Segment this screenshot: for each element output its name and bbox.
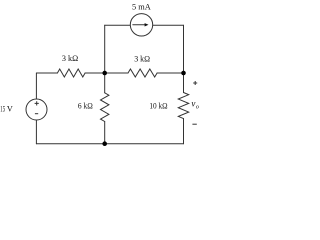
svg-text:6 kΩ: 6 kΩ	[78, 100, 93, 110]
svg-text:3 kΩ: 3 kΩ	[134, 53, 150, 63]
svg-text:5 mA: 5 mA	[132, 1, 151, 11]
svg-text:o: o	[196, 105, 199, 111]
svg-text:10 kΩ: 10 kΩ	[149, 101, 167, 111]
svg-text:15: 15	[0, 104, 5, 113]
svg-text:v: v	[191, 98, 195, 108]
svg-text:V: V	[7, 104, 13, 113]
svg-text:3 kΩ: 3 kΩ	[62, 53, 78, 63]
